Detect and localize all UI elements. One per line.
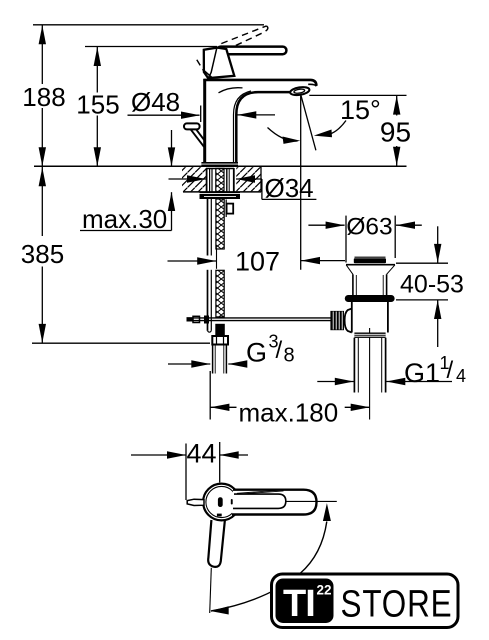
svg-text:385: 385	[21, 239, 64, 269]
svg-text:95: 95	[380, 117, 411, 148]
svg-text:G: G	[246, 338, 267, 368]
svg-text:Ø63: Ø63	[346, 214, 392, 241]
svg-text:155: 155	[76, 90, 119, 120]
svg-text:22: 22	[317, 583, 332, 598]
svg-text:107: 107	[235, 247, 280, 277]
svg-text:/: /	[447, 357, 454, 384]
svg-text:/: /	[276, 337, 283, 364]
svg-text:44: 44	[186, 439, 216, 469]
svg-text:max.180: max.180	[239, 398, 339, 428]
svg-text:Ø48: Ø48	[131, 87, 180, 117]
svg-text:TI: TI	[283, 583, 315, 625]
svg-text:188: 188	[22, 82, 65, 112]
svg-text:G1: G1	[404, 358, 440, 388]
svg-text:8: 8	[284, 345, 295, 367]
svg-text:4: 4	[456, 366, 466, 386]
svg-text:Ø34: Ø34	[265, 173, 314, 203]
svg-text:40-53: 40-53	[400, 271, 464, 299]
svg-text:max.30: max.30	[82, 204, 167, 234]
svg-text:15°: 15°	[340, 95, 381, 125]
svg-text:STORE: STORE	[341, 584, 453, 626]
